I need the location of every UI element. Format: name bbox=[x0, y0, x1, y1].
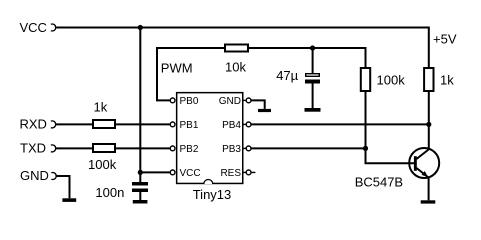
capacitor C 100n bbox=[139, 172, 141, 182]
wire 1k bottom to collector bbox=[428, 92, 430, 150]
wire TXD to 100k bbox=[56, 147, 92, 149]
svg-text:PB4: PB4 bbox=[222, 120, 241, 131]
capacitor C 47u (electrolytic) bbox=[306, 74, 320, 77]
wire 47u bottom lead bbox=[312, 84, 314, 109]
resistor 100k (vertical, right) bbox=[361, 68, 370, 91]
svg-text:PWM: PWM bbox=[161, 61, 193, 76]
svg-text:1k: 1k bbox=[440, 73, 454, 88]
svg-text:VCC: VCC bbox=[20, 20, 47, 35]
wire vertical VCC to IC pin VCC bbox=[140, 28, 170, 173]
svg-text:RES: RES bbox=[220, 168, 241, 179]
svg-text:GND: GND bbox=[20, 168, 49, 183]
svg-text:PB1: PB1 bbox=[180, 120, 199, 131]
svg-text:GND: GND bbox=[219, 96, 241, 107]
svg-text:PB3: PB3 bbox=[222, 144, 241, 155]
op IC U1 Tiny13 box bbox=[177, 93, 243, 184]
junction dot 47u tap bbox=[310, 45, 315, 50]
resistor 100k (TXD) bbox=[93, 144, 115, 152]
junction dot at VCC rail x=140 bbox=[138, 25, 143, 30]
wire PB4 to collector column bbox=[251, 123, 429, 125]
svg-text:Tiny13: Tiny13 bbox=[193, 187, 232, 202]
svg-text:VCC: VCC bbox=[180, 168, 201, 179]
pin RES bbox=[243, 171, 255, 173]
svg-text:100k: 100k bbox=[88, 157, 117, 172]
svg-text:+5V: +5V bbox=[433, 32, 457, 47]
pin PB1 bbox=[170, 122, 175, 127]
wire RXD to 1k bbox=[56, 123, 92, 125]
svg-text:BC547B: BC547B bbox=[355, 175, 403, 190]
port GND bbox=[51, 173, 56, 180]
svg-text:PB2: PB2 bbox=[180, 144, 199, 155]
port VCC bbox=[51, 24, 56, 31]
svg-text:RXD: RXD bbox=[20, 117, 47, 132]
wire emitter to ground bbox=[428, 178, 430, 201]
svg-text:100k: 100k bbox=[377, 73, 406, 88]
pin PB2 bbox=[170, 146, 175, 151]
junction dot PB4 row bbox=[426, 122, 431, 127]
pin PB0 bbox=[170, 98, 175, 103]
junction dot at IC VCC pin row bbox=[138, 170, 143, 175]
svg-text:10k: 10k bbox=[225, 60, 246, 75]
transistor Q1 BC547B bbox=[409, 148, 439, 178]
pin PB3 bbox=[243, 147, 246, 149]
junction dot PB3 row bbox=[363, 146, 368, 151]
port RXD bbox=[51, 121, 56, 128]
ground below 47u bbox=[305, 108, 321, 112]
ground at IC GND pin bbox=[258, 109, 271, 112]
resistor 1k (RXD) bbox=[93, 120, 115, 128]
resistor 10k bbox=[225, 45, 248, 52]
svg-text:TXD: TXD bbox=[20, 140, 46, 155]
wire 47u top lead bbox=[312, 48, 314, 73]
pin GND bbox=[243, 99, 246, 101]
wire PWM loop (PB0 to 10k) bbox=[157, 48, 224, 100]
svg-text:47µ: 47µ bbox=[276, 68, 298, 83]
wire IC GND pin to ground bbox=[251, 100, 265, 109]
svg-text:PB0: PB0 bbox=[180, 96, 199, 107]
svg-text:1k: 1k bbox=[94, 100, 108, 115]
IC notch bbox=[204, 180, 213, 185]
wire GND port to ground bbox=[57, 176, 70, 198]
ground below transistor bbox=[421, 200, 436, 203]
port TXD bbox=[51, 145, 56, 152]
svg-text:100n: 100n bbox=[95, 185, 124, 200]
wire VCC rail top bbox=[56, 28, 429, 68]
wire 100k bottom to transistor base bbox=[366, 92, 415, 163]
wire 100k to PB2 bbox=[116, 147, 170, 149]
wire PB3 to 100k column bbox=[251, 147, 365, 149]
resistor 1k (vertical, right) bbox=[424, 68, 433, 91]
wire 10k to 100k top bbox=[249, 48, 366, 67]
ground below 100n bbox=[133, 200, 148, 204]
pin PB4 bbox=[243, 123, 246, 125]
wire 1k to PB1 bbox=[116, 123, 170, 125]
wire 100n bottom lead bbox=[139, 192, 141, 200]
pin VCC bbox=[170, 170, 175, 175]
ground below GND port bbox=[62, 198, 76, 202]
